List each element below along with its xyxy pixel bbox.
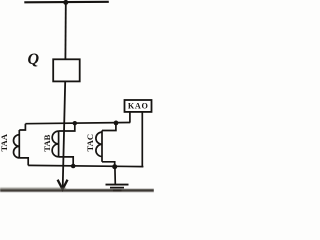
svg-text:TAC: TAC	[85, 134, 95, 152]
current transformer TAB	[52, 123, 75, 166]
svg-text:TAB: TAB	[42, 134, 52, 151]
junction dot busbar-feeder	[63, 0, 68, 5]
wire secondary bottom rail	[28, 165, 143, 166]
current transformer TAA	[13, 124, 28, 166]
wire KAO left lead	[129, 112, 131, 123]
wire ground lead	[114, 167, 116, 185]
busbar	[24, 1, 109, 4]
ground	[106, 185, 129, 191]
wire feeder upper	[64, 2, 66, 59]
wire secondary top rail	[25, 123, 130, 124]
svg-text:KAO: KAO	[128, 102, 149, 111]
current transformer TAC	[96, 123, 116, 167]
junction dot TAC bottom	[112, 164, 117, 169]
wire KAO right lead	[141, 112, 143, 167]
svg-text:TAA: TAA	[0, 133, 9, 151]
relay KAO	[125, 100, 152, 112]
junction dot TAB top	[73, 121, 77, 125]
arrow feeder to load	[58, 180, 68, 190]
junction dot TAB bottom	[71, 164, 76, 169]
junction dot TAC top	[114, 121, 119, 126]
wire feeder lower	[63, 81, 65, 188]
svg-text:Q: Q	[28, 51, 40, 68]
circuit breaker Q	[53, 59, 79, 81]
